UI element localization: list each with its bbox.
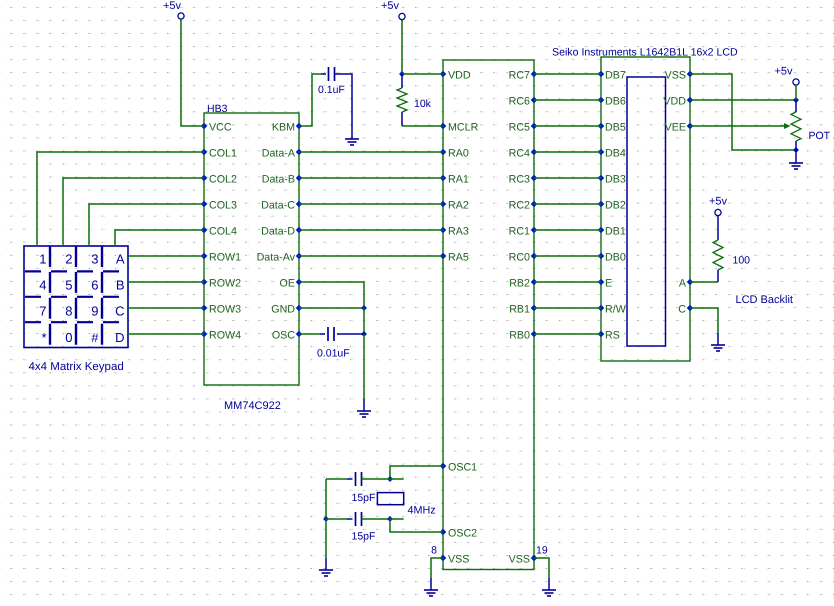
capacitor C1 0.1uF [329, 67, 335, 81]
svg-text:VCC: VCC [209, 122, 232, 134]
ground stem osc [325, 558, 327, 570]
lead R1 top [401, 74, 403, 88]
ground (LCD backlight) [711, 345, 725, 351]
U3 pin C [678, 304, 693, 316]
svg-text:A: A [679, 278, 687, 290]
svg-text:Data-Av: Data-Av [257, 252, 296, 264]
wire U2 to LCD row y=308 [534, 307, 601, 309]
svg-text:1: 1 [39, 252, 46, 267]
svg-text:19: 19 [536, 545, 548, 557]
lead C2 left [320, 333, 325, 335]
wire U1 COL3 to keypad col3 [89, 204, 204, 246]
lead C2 right [337, 333, 364, 335]
U3 pin DB1 [598, 226, 626, 238]
U3 pin VDD [663, 96, 693, 108]
svg-text:A: A [116, 252, 125, 267]
svg-text:+5v: +5v [163, 0, 182, 12]
U3 pin DB0 [598, 252, 626, 264]
wire LCD C to ground [690, 308, 718, 333]
wire C3 to junction [362, 478, 391, 480]
svg-text:2: 2 [65, 252, 72, 267]
LCD display window [627, 77, 666, 346]
ground (oscillator) [319, 570, 333, 576]
svg-text:DB2: DB2 [605, 200, 626, 212]
wire U1 Data to U2 RA row 3 [299, 229, 443, 231]
wire ground net segment [363, 308, 365, 334]
U1 pin ROW3 [201, 304, 241, 316]
svg-text:VDD: VDD [448, 70, 471, 82]
IC U1 MM74C922 body [204, 113, 299, 385]
svg-text:DB7: DB7 [605, 70, 626, 82]
U1 pin GND [271, 304, 302, 316]
wire U1 Data to U2 RA row 0 [299, 151, 443, 153]
svg-text:Data-C: Data-C [261, 200, 295, 212]
svg-text:RC6: RC6 [509, 96, 530, 108]
svg-text:RC4: RC4 [509, 148, 530, 160]
svg-text:DB3: DB3 [605, 174, 626, 186]
svg-text:OE: OE [280, 278, 295, 290]
U3 pin DB4 [598, 148, 626, 160]
svg-text:OSC1: OSC1 [448, 462, 477, 474]
U2 pin RB0 [509, 330, 537, 342]
svg-text:VSS: VSS [448, 554, 469, 566]
U3 pin VSS [665, 70, 694, 82]
power +5v supply (keypad encoder VCC) [163, 0, 184, 19]
svg-text:ROW3: ROW3 [209, 304, 241, 316]
U3 pin DB5 [598, 122, 626, 134]
svg-text:LCD Backlit: LCD Backlit [736, 294, 793, 306]
svg-text:0.1uF: 0.1uF [318, 84, 345, 96]
U2 pin RB1 [509, 304, 537, 316]
wire U1 Data to U2 RA row 1 [299, 177, 443, 179]
keypad KP1 4x4 matrix outer box [24, 246, 128, 348]
U1 pin COL4 [201, 226, 237, 238]
U2 pin RC2 [509, 200, 538, 212]
svg-text:OSC: OSC [272, 330, 295, 342]
svg-text:ROW2: ROW2 [209, 278, 241, 290]
capacitor C4 15pF [356, 512, 362, 526]
wire U1 GND to ground net [299, 307, 364, 309]
lead C1 left [321, 73, 326, 75]
wire U1 Data to U2 RA row 2 [299, 203, 443, 205]
svg-text:100: 100 [733, 255, 751, 267]
U1 pin KBM [272, 122, 302, 134]
svg-text:RS: RS [605, 330, 620, 342]
wire C3 left [326, 478, 347, 480]
U1 pin OE [280, 278, 303, 290]
U2 pin RA0 [440, 148, 469, 160]
wire keypad row3 to U1 ROW3 [128, 307, 204, 309]
svg-text:0.01uF: 0.01uF [317, 348, 350, 360]
U3 pin DB2 [598, 200, 626, 212]
U3 pin E [598, 278, 612, 290]
svg-text:COL3: COL3 [209, 200, 237, 212]
svg-text:MCLR: MCLR [448, 122, 479, 134]
svg-text:ROW1: ROW1 [209, 252, 241, 264]
U2 pin RC6 [509, 96, 538, 108]
svg-text:Data-B: Data-B [262, 174, 295, 186]
wire +5v to U1 VCC [181, 19, 204, 126]
svg-text:15pF: 15pF [352, 531, 376, 543]
U3 pin R/W [598, 304, 627, 316]
lead C3 right-plate side [347, 478, 353, 480]
U2 pin VDD [440, 70, 471, 82]
svg-text:VDD: VDD [663, 96, 686, 108]
svg-text:C: C [115, 304, 124, 319]
svg-text:5: 5 [65, 278, 72, 293]
svg-text:DB6: DB6 [605, 96, 626, 108]
junction OSC2/C4/X1 [387, 516, 393, 522]
wire osc net to ground [325, 519, 327, 558]
wire U2 OSC1 to crystal net [390, 466, 443, 479]
crystal X1 4MHz body [377, 493, 403, 505]
svg-text:RB0: RB0 [509, 330, 530, 342]
junction C4 left [323, 516, 329, 522]
junction OSC1/C3/X1 [387, 476, 393, 482]
wire U1 COL1 to keypad col1 [37, 152, 204, 246]
svg-text:POT: POT [809, 130, 831, 142]
lead R2 top from +5v [717, 216, 719, 241]
LCD module U3 body [601, 57, 690, 361]
wire LCD VSS to POT bottom [690, 74, 796, 150]
junction OE/GND net [361, 305, 367, 311]
svg-text:COL1: COL1 [209, 148, 237, 160]
resistor R1 10k [397, 88, 407, 112]
ground stem backlight [717, 333, 719, 345]
lead R1 bottom [401, 112, 403, 126]
svg-text:DB5: DB5 [605, 122, 626, 134]
svg-text:KBM: KBM [272, 122, 295, 134]
IC U2 microcontroller body [443, 60, 534, 570]
wire R2 to LCD A [690, 281, 718, 283]
wire U2 to LCD row y=282 [534, 281, 601, 283]
lead C1 right to ground [335, 74, 353, 139]
potentiometer POT body [791, 112, 801, 141]
U3 pin RS [598, 330, 620, 342]
wire U2 to LCD row y=256 [534, 255, 601, 257]
U2 pin RA5 [440, 252, 469, 264]
svg-text:RA2: RA2 [448, 200, 469, 212]
svg-text:C: C [678, 304, 686, 316]
svg-text:RB1: RB1 [509, 304, 530, 316]
U1 pin ROW2 [201, 278, 241, 290]
ground stem pin8 [430, 578, 432, 590]
U3 pin DB6 [598, 96, 626, 108]
U1 pin COL2 [201, 174, 237, 186]
U2 pin RC0 [509, 252, 538, 264]
svg-text:0: 0 [65, 330, 72, 345]
wire +5v to VDD net [401, 20, 403, 75]
svg-text:DB4: DB4 [605, 148, 626, 160]
U1 pin Data-Av [257, 252, 303, 264]
U3 pin DB7 [598, 70, 626, 82]
ground (POT) [789, 163, 803, 169]
svg-text:DB1: DB1 [605, 226, 626, 238]
svg-text:4MHz: 4MHz [408, 505, 436, 517]
wire U1 OE to ground net [299, 282, 364, 308]
svg-text:3: 3 [91, 252, 98, 267]
wire keypad row2 to U1 ROW2 [128, 281, 204, 283]
U1 pin ROW4 [201, 330, 241, 342]
ground (U2 VSS pin 8) [424, 590, 438, 596]
svg-text:HB3: HB3 [207, 103, 228, 115]
U1 pin Data-C [261, 200, 302, 212]
svg-text:6: 6 [91, 278, 98, 293]
wire keypad row4 to U1 ROW4 [128, 333, 204, 335]
U2 pin RC1 [509, 226, 538, 238]
junction VDD net [399, 71, 405, 77]
U2 pin VSS [440, 554, 470, 566]
wire U2 to LCD row y=126 [534, 125, 601, 127]
U2 pin RC7 [509, 70, 538, 82]
wire to U2 OSC2 [390, 519, 443, 532]
capacitor C3 15pF [356, 472, 362, 486]
power +5v supply (POT) [774, 66, 799, 86]
U2 pin OSC2 [440, 528, 477, 540]
svg-text:#: # [91, 330, 99, 345]
power +5v supply (U2 VDD) [381, 0, 405, 20]
U2 pin RB2 [509, 278, 537, 290]
svg-text:E: E [605, 278, 612, 290]
wire U2 to LCD row y=230 [534, 229, 601, 231]
U2 pin RC5 [509, 122, 538, 134]
wire to U2 VDD [402, 73, 443, 75]
lead C4 left [347, 518, 353, 520]
lead POT bottom [795, 141, 797, 150]
svg-text:RA5: RA5 [448, 252, 469, 264]
U1 pin COL3 [201, 200, 237, 212]
wire U2 to LCD row y=74 [534, 73, 601, 75]
svg-text:D: D [115, 330, 124, 345]
wire U1 COL2 to keypad col2 [63, 178, 204, 246]
svg-text:Data-A: Data-A [262, 148, 296, 160]
capacitor C2 0.01uF [328, 327, 334, 341]
svg-text:RC3: RC3 [509, 174, 530, 186]
svg-text:7: 7 [39, 304, 46, 319]
wire U2 VSS pin19 to ground [534, 558, 549, 578]
U1 pin Data-B [262, 174, 303, 186]
svg-text:RC2: RC2 [509, 200, 530, 212]
svg-text:9: 9 [91, 304, 98, 319]
svg-text:RB2: RB2 [509, 278, 530, 290]
wire osc left vertical [325, 479, 327, 519]
svg-text:+5v: +5v [381, 0, 400, 12]
U2 pin RC3 [509, 174, 538, 186]
svg-text:RA0: RA0 [448, 148, 469, 160]
svg-text:OSC2: OSC2 [448, 528, 477, 540]
U3 pin A [679, 278, 693, 290]
U2 pin RC4 [509, 148, 538, 160]
svg-text:COL2: COL2 [209, 174, 237, 186]
svg-text:VSS: VSS [509, 554, 530, 566]
wire U2 to LCD row y=334 [534, 333, 601, 335]
svg-text:COL4: COL4 [209, 226, 237, 238]
svg-text:DB0: DB0 [605, 252, 626, 264]
svg-text:RC7: RC7 [509, 70, 530, 82]
wire C4 to junction [362, 518, 391, 520]
U2 pin RA1 [440, 174, 469, 186]
wire crystal X1 top stub [390, 478, 404, 480]
junction POT bottom [793, 147, 799, 153]
wire U2 to LCD row y=204 [534, 203, 601, 205]
svg-text:8: 8 [65, 304, 72, 319]
wire C4 left [326, 518, 347, 520]
U1 pin Data-D [261, 226, 302, 238]
svg-text:RA1: RA1 [448, 174, 469, 186]
wire R1 to U2 MCLR [402, 125, 443, 127]
svg-text:4: 4 [39, 278, 46, 293]
svg-text:RA3: RA3 [448, 226, 469, 238]
lead R2 bottom [717, 270, 719, 282]
svg-text:+5v: +5v [774, 66, 793, 78]
wire LCD VDD to POT top [690, 99, 796, 101]
junction POT top [793, 97, 799, 103]
power +5v supply (LCD backlight) [709, 196, 728, 216]
resistor R2 100 [713, 240, 723, 270]
wire U1 Data to U2 RA row 4 [299, 255, 443, 257]
wire U2 VSS pin8 to ground [431, 558, 443, 578]
U2 pin MCLR [440, 122, 479, 134]
svg-text:RC5: RC5 [509, 122, 530, 134]
ground (U2 VSS pin 19) [542, 590, 556, 596]
svg-text:8: 8 [431, 545, 437, 557]
wire U2 to LCD row y=100 [534, 99, 601, 101]
U1 pin ROW1 [201, 252, 241, 264]
svg-text:VEE: VEE [665, 122, 686, 134]
wire U1 COL4 to keypad col4 [115, 230, 204, 246]
ground stem POT [795, 150, 797, 163]
ground stem [363, 399, 365, 411]
wire crystal X1 bottom stub [390, 518, 404, 520]
U1 pin OSC [272, 330, 302, 342]
svg-text:B: B [116, 278, 125, 293]
keypad internal dividers [24, 246, 128, 348]
U2 pin VSS [509, 554, 538, 566]
U3 pin DB3 [598, 174, 626, 186]
svg-text:MM74C922: MM74C922 [224, 400, 281, 412]
svg-text:ROW4: ROW4 [209, 330, 241, 342]
U1 pin Data-A [262, 148, 303, 160]
wire U2 to LCD row y=152 [534, 151, 601, 153]
svg-text:R/W: R/W [605, 304, 627, 316]
wire ground net down [363, 334, 365, 399]
U1 pin VCC [201, 122, 232, 134]
wire U2 to LCD row y=178 [534, 177, 601, 179]
wire U1 OSC to C2 [299, 333, 320, 335]
wire keypad row1 to U1 ROW1 [128, 255, 204, 257]
junction OSC/ground net [361, 331, 367, 337]
svg-text:*: * [41, 330, 46, 345]
ground (U1 OSC net) [357, 411, 371, 417]
svg-text:Data-D: Data-D [261, 226, 295, 238]
svg-text:VSS: VSS [665, 70, 686, 82]
U2 pin OSC1 [440, 462, 477, 474]
U3 pin VEE [665, 122, 694, 134]
svg-text:10k: 10k [414, 98, 432, 110]
svg-text:4x4 Matrix Keypad: 4x4 Matrix Keypad [29, 361, 124, 373]
svg-text:15pF: 15pF [352, 492, 376, 504]
ground stem pin19 [548, 578, 550, 590]
wire LCD VEE to POT wiper [690, 125, 785, 127]
ground (C1) [345, 139, 359, 145]
svg-text:GND: GND [271, 304, 295, 316]
svg-text:RC0: RC0 [509, 252, 530, 264]
svg-text:+5v: +5v [709, 196, 728, 208]
svg-text:RC1: RC1 [509, 226, 530, 238]
U2 pin RA3 [440, 226, 469, 238]
wire U1 KBM to C1 [299, 74, 321, 126]
U2 pin RA2 [440, 200, 469, 212]
lead POT top [795, 100, 797, 112]
U1 pin COL1 [201, 148, 237, 160]
wire +5v to POT junction [795, 85, 797, 100]
